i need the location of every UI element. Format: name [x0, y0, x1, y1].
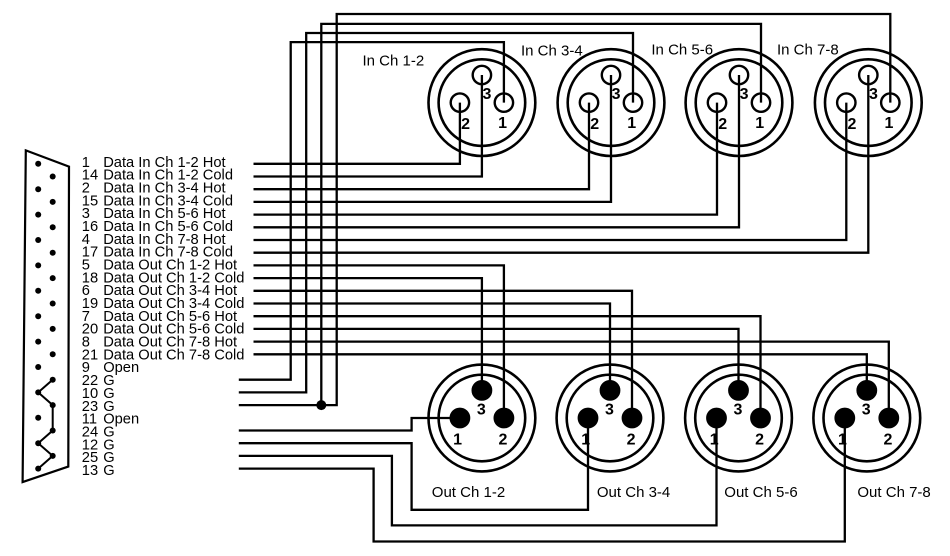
svg-text:3: 3	[605, 402, 614, 419]
svg-text:2: 2	[718, 116, 727, 133]
In Ch 5-6 pin 3	[730, 66, 748, 84]
DB25 pin 23 contact dot	[50, 402, 56, 408]
svg-text:1: 1	[581, 431, 590, 448]
svg-text:2: 2	[627, 431, 636, 448]
In Ch 7-8 pin 3	[859, 66, 877, 84]
wire: DB25 pin 7 to Out Ch 5-6 pin 2 (hot)	[254, 316, 761, 418]
DB25 pin 8 contact dot	[35, 339, 41, 345]
Out Ch 7-8 pin 2	[880, 409, 898, 427]
DB25 pin 14 contact dot	[50, 174, 56, 180]
wire: DB25 pin 17 to In Ch 7-8 pin 3 (cold)	[254, 75, 869, 253]
wire: DB25 pin 21 to Out Ch 7-8 pin 3 (cold)	[254, 354, 867, 390]
wire: DB25 pin 1 to In Ch 1-2 pin 2 (hot)	[254, 103, 460, 164]
DB25 pin 12 contact dot	[35, 440, 41, 446]
DB25 pin 1 contact dot	[35, 161, 41, 167]
XLR connector Out Ch 7-8: shell	[813, 365, 920, 472]
svg-text:3: 3	[612, 86, 621, 103]
Out Ch 7-8 pin 3	[858, 381, 876, 399]
svg-text:2: 2	[755, 431, 764, 448]
svg-text:3: 3	[733, 402, 742, 419]
DB25 pin 21 contact dot	[50, 351, 56, 357]
svg-text:In Ch 5-6: In Ch 5-6	[651, 42, 713, 59]
wire: DB25 pin 19 to Out Ch 3-4 pin 3 (cold)	[254, 304, 611, 391]
Out Ch 7-8 pin 1	[836, 409, 854, 427]
In Ch 3-4 pin 2	[580, 93, 598, 111]
svg-text:2: 2	[499, 431, 508, 448]
Out Ch 5-6 pin 3	[729, 381, 747, 399]
svg-text:1: 1	[498, 115, 507, 132]
DB25 pin 7 contact dot	[35, 313, 41, 319]
wire: DB25 pin 5 to Out Ch 1-2 pin 2 (hot)	[254, 265, 504, 418]
svg-text:Out Ch 1-2: Out Ch 1-2	[432, 484, 505, 501]
svg-text:2: 2	[590, 116, 599, 133]
DB25 pin 16 contact dot	[50, 224, 56, 230]
junction node on 23 G wire	[316, 400, 326, 410]
wire: DB25 pin 6 to Out Ch 3-4 pin 2 (hot)	[254, 291, 633, 418]
svg-text:2: 2	[848, 116, 857, 133]
svg-text:1: 1	[710, 431, 719, 448]
Out Ch 7-8 pin number labels	[838, 402, 892, 449]
In Ch 1-2 pin 3	[473, 66, 491, 84]
In Ch 7-8 pin 2	[837, 93, 855, 111]
XLR connector In Ch 3-4: shell	[558, 49, 665, 156]
svg-text:Out Ch 7-8: Out Ch 7-8	[857, 484, 930, 501]
Out Ch 3-4 pin number labels	[581, 402, 635, 449]
XLR connector Out Ch 1-2: shell	[429, 365, 536, 472]
In Ch 1-2 pin 2	[451, 93, 469, 111]
DB25 pin 3 contact dot	[35, 212, 41, 218]
DB25 pin 20 contact dot	[50, 326, 56, 332]
wire: DB25 pin 13 G to Out Ch 7-8 pin 1 shield	[239, 418, 845, 542]
XLR connector Out Ch 5-6: shell	[685, 365, 792, 472]
Out Ch 1-2 pin 1	[451, 409, 469, 427]
svg-text:Out Ch 5-6: Out Ch 5-6	[724, 484, 797, 501]
DB25 pin 10 contact dot	[35, 389, 41, 395]
wire: DB25 pin 16 to In Ch 5-6 pin 3 (cold)	[254, 75, 740, 227]
Out Ch 3-4 pin 3	[601, 381, 619, 399]
svg-text:1: 1	[453, 431, 462, 448]
wire: DB25 pin 12 G to Out Ch 3-4 pin 1 shield	[239, 418, 588, 510]
wire: DB25 pin 18 to Out Ch 1-2 pin 3 (cold)	[254, 278, 482, 390]
XLR connector In Ch 7-8: shell	[815, 49, 922, 156]
svg-text:2: 2	[883, 431, 892, 448]
Out Ch 5-6 pin 1	[707, 409, 725, 427]
Out Ch 3-4 pin 2	[623, 409, 641, 427]
DB25 pin 11 contact dot	[35, 415, 41, 421]
DB25 pin 6 contact dot	[35, 288, 41, 294]
svg-text:1: 1	[885, 115, 894, 132]
DB25 pin 22 contact dot	[50, 377, 56, 383]
wire: DB25 pin 25 G to Out Ch 5-6 pin 1 shield	[239, 418, 717, 525]
In Ch 5-6 pin number labels	[718, 86, 764, 133]
DB25 pin 4 contact dot	[35, 237, 41, 243]
svg-text:2: 2	[461, 116, 470, 133]
Out Ch 1-2 pin 2	[495, 409, 513, 427]
Out Ch 3-4 pin 1	[579, 409, 597, 427]
svg-text:3: 3	[477, 402, 486, 419]
svg-text:3: 3	[862, 402, 871, 419]
svg-text:3: 3	[483, 86, 492, 103]
svg-text:1: 1	[838, 431, 847, 448]
DB25 pin 18 contact dot	[50, 275, 56, 281]
Out Ch 1-2 pin number labels	[453, 402, 507, 449]
wire: DB25 pin 15 to In Ch 3-4 pin 3 (cold)	[254, 75, 612, 202]
svg-text:In Ch 3-4: In Ch 3-4	[521, 42, 583, 59]
wire: DB25 pin 2 to In Ch 3-4 pin 2 (hot)	[254, 103, 590, 190]
DB25 connector J1 body	[23, 150, 69, 482]
svg-text:3: 3	[740, 86, 749, 103]
Out Ch 5-6 pin number labels	[710, 402, 764, 449]
In Ch 3-4 pin number labels	[590, 86, 636, 133]
XLR connector Out Ch 3-4: shell	[557, 365, 664, 472]
DB25 pin 9 contact dot	[35, 364, 41, 370]
svg-text:In Ch 7-8: In Ch 7-8	[777, 42, 839, 59]
wire: DB25 pin 14 to In Ch 1-2 pin 3 (cold)	[254, 75, 482, 177]
svg-text:Out Ch 3-4: Out Ch 3-4	[597, 484, 670, 501]
DB25 pin 13 contact dot	[35, 466, 41, 472]
In Ch 5-6 pin 2	[708, 93, 726, 111]
wire: node 23 G tap to In Ch 5-6 pin 1 shield bus	[321, 24, 761, 405]
In Ch 1-2 pin number labels	[461, 86, 507, 133]
In Ch 3-4 pin 1	[624, 93, 642, 111]
DB25 pin 24 contact dot	[50, 428, 56, 434]
DB25 pin 2 contact dot	[35, 186, 41, 192]
wire: DB25 pin 23 G to In Ch 7-8 pin 1 shield bus	[239, 14, 891, 405]
In Ch 3-4 pin 3	[602, 66, 620, 84]
svg-text:1: 1	[755, 115, 764, 132]
svg-text:1: 1	[627, 115, 636, 132]
wire: DB25 pin 3 to In Ch 5-6 pin 2 (hot)	[254, 103, 718, 215]
DB25 pin 25 contact dot	[50, 453, 56, 459]
Out Ch 5-6 pin 2	[751, 409, 769, 427]
DB25 pin 5 contact dot	[35, 262, 41, 268]
In Ch 1-2 pin 1	[495, 93, 513, 111]
DB25 pin 17 contact dot	[50, 250, 56, 256]
svg-text:In Ch 1-2: In Ch 1-2	[363, 53, 425, 70]
wire: DB25 pin 20 to Out Ch 5-6 pin 3 (cold)	[254, 329, 739, 391]
XLR connector In Ch 1-2: shell	[429, 49, 536, 156]
ground jumper chain pins 22-10-23-24-12-25-13	[38, 380, 53, 469]
Out Ch 1-2 pin 3	[473, 381, 491, 399]
XLR connector In Ch 5-6: shell	[686, 49, 793, 156]
wire: DB25 pin 4 to In Ch 7-8 pin 2 (hot)	[254, 103, 847, 240]
svg-text:3: 3	[869, 86, 878, 103]
DB25 pin 15 contact dot	[50, 199, 56, 205]
wire: DB25 pin 8 to Out Ch 7-8 pin 2 (hot)	[254, 342, 889, 418]
In Ch 5-6 pin 1	[752, 93, 770, 111]
wire: DB25 pin 24 G to Out Ch 1-2 pin 1 shield	[239, 418, 460, 431]
In Ch 7-8 pin number labels	[848, 86, 894, 133]
In Ch 7-8 pin 1	[881, 93, 899, 111]
wire: DB25 pin 22 G to In Ch 1-2 pin 1 shield bus	[239, 42, 504, 380]
DB25 pin 19 contact dot	[50, 301, 56, 307]
wire: DB25 pin 10 G to In Ch 3-4 pin 1 shield bus	[239, 33, 633, 392]
